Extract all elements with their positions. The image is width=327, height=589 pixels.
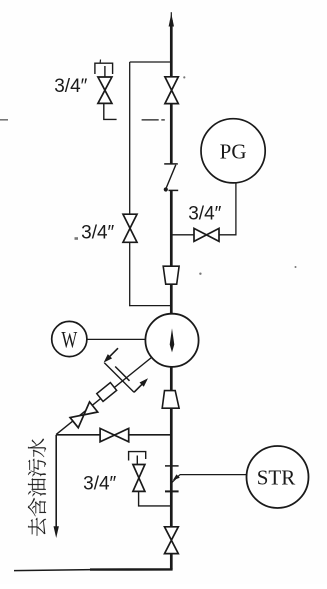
wire pump drain diagonal <box>56 358 151 435</box>
wire vent drain stub <box>104 103 117 119</box>
svg-text:STR: STR <box>257 466 296 490</box>
wire drain header horizontal <box>56 434 171 436</box>
scan speckle dots <box>0 76 297 275</box>
bent arrow 2 (drain flow mark) <box>134 381 146 393</box>
strainer tag STR circle <box>247 446 309 508</box>
reducer R2 (below pump) <box>162 391 179 409</box>
bent arrow 1 (drain flow mark) <box>106 348 118 360</box>
valve V3 on bypass <box>123 214 137 242</box>
wire STR leader <box>180 474 247 476</box>
valve V4 (top-left vent) <box>98 77 112 103</box>
wire main riser (break to reducer R1) <box>170 191 173 267</box>
svg-text:3/4″: 3/4″ <box>83 474 116 495</box>
label to oily wastewater (rotated CJK) <box>28 439 46 536</box>
svg-text:3/4″: 3/4″ <box>54 76 87 97</box>
wire bypass bottom horizontal return <box>129 305 171 307</box>
wire main riser (valve V1 to break) <box>170 104 173 164</box>
wire dashed connection at riser <box>142 119 159 121</box>
wire bypass top horizontal <box>130 61 173 63</box>
flange mark F1 (strainer top) <box>165 465 179 467</box>
water meter W circle <box>52 321 87 356</box>
wire main riser (reducer R2 to bottom valve) <box>170 408 173 527</box>
valve V6 on drain diagonal <box>70 402 98 428</box>
svg-text:3/4″: 3/4″ <box>81 223 114 244</box>
valve V1 on main riser <box>165 77 178 104</box>
wire W leader line <box>87 338 146 340</box>
flange mark F2 (strainer bottom) <box>165 490 179 492</box>
wire sewer drop with arrow <box>55 435 57 528</box>
valve V2 on main riser bottom <box>165 527 179 554</box>
hose cap bracket (top-left vent) <box>95 63 113 74</box>
wire bent-arrow connector <box>104 363 134 393</box>
valve V8 (bottom vent) <box>133 465 145 492</box>
hose cap bracket (bottom vent) <box>129 452 146 461</box>
wire main riser top segment <box>170 20 173 77</box>
wire main riser (reducer R1 to pump) <box>170 284 173 314</box>
wire bypass vertical line <box>129 62 131 306</box>
wire bottom vent connector <box>139 491 172 506</box>
pump P1 circle with flow arrow <box>145 314 198 367</box>
wire bottom horizontal supply line <box>90 568 173 571</box>
wire PG instrument line <box>171 183 236 235</box>
valve V7 on drain header <box>100 428 129 441</box>
pipe break symbol (Z-break) <box>164 164 179 192</box>
crossing tick (union) on drain <box>115 367 129 381</box>
reducer R1 (above pump) <box>163 266 179 284</box>
flexible joint (rotated rectangle) on drain <box>97 383 117 402</box>
pressure gauge PG circle <box>201 119 265 183</box>
flow arrow up (top of riser) <box>170 12 172 18</box>
wire main riser bottom elbow <box>170 554 173 570</box>
wire main riser (pump to reducer R2) <box>170 367 173 391</box>
svg-text:W: W <box>61 328 77 353</box>
valve V5 on PG line <box>194 228 219 241</box>
svg-text:3/4″: 3/4″ <box>188 204 221 225</box>
svg-text:PG: PG <box>220 140 247 164</box>
